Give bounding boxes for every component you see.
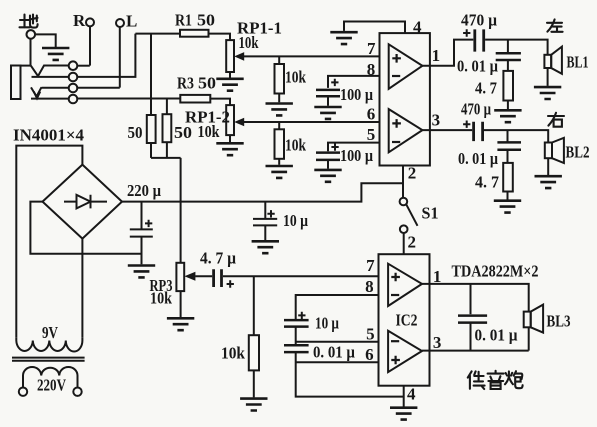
- svg-text:0. 01 µ: 0. 01 µ: [475, 326, 518, 345]
- svg-text:470 µ: 470 µ: [461, 11, 497, 30]
- svg-text:10k: 10k: [239, 33, 259, 52]
- svg-text:BL1: BL1: [567, 53, 589, 72]
- svg-text:100 µ: 100 µ: [340, 146, 373, 165]
- svg-text:TDA2822M×2: TDA2822M×2: [452, 262, 539, 281]
- svg-text:0. 01 µ: 0. 01 µ: [458, 149, 498, 168]
- svg-text:R: R: [73, 11, 86, 30]
- svg-text:2: 2: [408, 233, 417, 252]
- svg-text:10 µ: 10 µ: [283, 211, 308, 230]
- svg-text:6: 6: [367, 105, 376, 124]
- svg-text:50: 50: [174, 123, 192, 142]
- svg-text:10k: 10k: [285, 136, 306, 155]
- svg-text:4: 4: [407, 385, 416, 404]
- svg-text:6: 6: [365, 345, 374, 364]
- svg-text:8: 8: [365, 277, 374, 296]
- svg-text:0. 01 µ: 0. 01 µ: [313, 343, 355, 362]
- svg-text:3: 3: [433, 333, 442, 352]
- svg-text:1: 1: [432, 46, 441, 65]
- svg-text:50: 50: [198, 74, 216, 93]
- svg-text:10k: 10k: [285, 68, 306, 87]
- svg-text:0. 01 µ: 0. 01 µ: [457, 57, 498, 76]
- svg-text:50: 50: [128, 123, 143, 142]
- svg-text:9V: 9V: [42, 323, 59, 342]
- svg-text:BL3: BL3: [547, 312, 571, 331]
- svg-text:470 µ: 470 µ: [461, 100, 491, 119]
- svg-text:10k: 10k: [198, 122, 220, 141]
- svg-text:220 µ: 220 µ: [127, 181, 161, 200]
- svg-text:L: L: [126, 12, 137, 31]
- svg-text:R1: R1: [175, 11, 192, 30]
- svg-text:5: 5: [366, 325, 375, 344]
- svg-text:1: 1: [433, 267, 442, 286]
- svg-text:220V: 220V: [37, 376, 67, 395]
- svg-text:7: 7: [367, 39, 376, 58]
- svg-text:IC2: IC2: [396, 311, 418, 330]
- svg-text:4. 7: 4. 7: [475, 79, 497, 98]
- svg-text:10 µ: 10 µ: [315, 314, 339, 333]
- svg-text:R3: R3: [177, 74, 194, 93]
- svg-text:S1: S1: [422, 204, 439, 223]
- svg-text:4. 7: 4. 7: [475, 173, 499, 192]
- svg-text:IN4001×4: IN4001×4: [13, 126, 84, 145]
- svg-text:3: 3: [432, 111, 441, 130]
- svg-text:4. 7 µ: 4. 7 µ: [200, 249, 236, 268]
- svg-text:2: 2: [408, 164, 417, 183]
- svg-text:50: 50: [197, 11, 215, 30]
- svg-text:10k: 10k: [221, 344, 245, 363]
- svg-text:100 µ: 100 µ: [340, 85, 373, 104]
- svg-text:5: 5: [367, 125, 376, 144]
- svg-text:8: 8: [367, 60, 376, 79]
- svg-text:4: 4: [413, 18, 422, 37]
- svg-text:BL2: BL2: [566, 143, 590, 162]
- svg-text:10k: 10k: [150, 289, 172, 308]
- svg-text:7: 7: [366, 256, 375, 275]
